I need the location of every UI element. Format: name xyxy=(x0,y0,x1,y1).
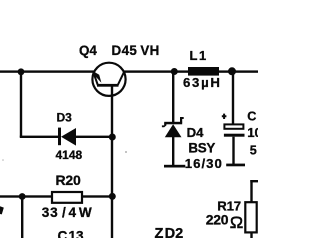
wire R17 top lead vertical xyxy=(250,180,252,202)
svg-text:10: 10 xyxy=(247,125,258,140)
scan speck left margin xyxy=(2,159,4,161)
wire top rail left segment xyxy=(0,70,95,72)
wire top rail right segment (collector to right edge through L1) xyxy=(124,70,258,72)
capacitor C bottom plate xyxy=(224,134,245,137)
plus sign of capacitor C xyxy=(222,114,227,119)
wire R20 row left segment xyxy=(0,195,52,197)
wire R20 row right segment xyxy=(82,195,113,197)
wire D3 row left segment xyxy=(20,136,59,138)
inductor L1 solid bar xyxy=(188,67,219,76)
clipped character at left edge xyxy=(0,206,4,214)
svg-text:R20: R20 xyxy=(56,172,81,188)
svg-text:Q4: Q4 xyxy=(79,43,97,58)
resistor R20 box xyxy=(52,192,82,203)
wire R17 bottom lead xyxy=(250,232,252,238)
wire D4 branch vertical (node L1 left down to zener) xyxy=(172,72,174,123)
svg-text:33 / 4 W: 33 / 4 W xyxy=(42,205,93,220)
node C junction dot left xyxy=(19,193,26,200)
capacitor C top plate (open box) xyxy=(224,124,243,128)
transistor Q4 collector slant xyxy=(118,72,124,85)
transistor Q4 emitter arrow xyxy=(93,71,101,83)
label ohm symbol of 220 ohm xyxy=(230,217,243,227)
ground bar under capacitor xyxy=(226,164,245,167)
svg-text:Z D2: Z D2 xyxy=(155,226,184,238)
node A junction dot xyxy=(18,68,25,75)
svg-text:5: 5 xyxy=(250,143,257,157)
resistor R17 vertical box xyxy=(245,202,256,232)
scan speck near base line xyxy=(125,151,127,153)
node dot L1 left xyxy=(171,68,178,75)
transistor Q4 emitter slant xyxy=(93,71,98,85)
wire D4 anode lead down xyxy=(172,137,174,165)
svg-text:D45 VH: D45 VH xyxy=(112,43,160,58)
zener D4 right hook (up then right) xyxy=(180,117,184,123)
zener D4 cathode bar xyxy=(164,122,182,125)
ground bar under D4 xyxy=(164,165,185,168)
svg-text:63µH: 63µH xyxy=(183,75,222,90)
wire capacitor lead down xyxy=(232,137,234,164)
wire left vertical from node A down to D3 row xyxy=(20,72,22,137)
svg-text:BSY: BSY xyxy=(188,141,215,156)
svg-text:C: C xyxy=(247,109,256,123)
wire R17 top corner from right edge xyxy=(250,180,258,182)
wire C branch vertical (node L1 right down to capacitor) xyxy=(232,71,234,124)
wire left vertical to bottom edge xyxy=(21,197,23,239)
svg-text:D4: D4 xyxy=(187,125,205,140)
svg-text:L1: L1 xyxy=(190,48,208,63)
svg-text:220: 220 xyxy=(206,212,229,228)
node B junction dot xyxy=(109,134,116,141)
zener D4 triangle (pointing up) xyxy=(165,124,182,137)
zener D4 left hook (down then left) xyxy=(162,124,167,128)
transistor Q4 base lead vertical long run down to bottom edge xyxy=(111,86,113,238)
svg-text:C 13: C 13 xyxy=(58,229,85,238)
svg-text:4148: 4148 xyxy=(56,148,83,162)
transistor Q4 base bar xyxy=(97,84,119,87)
node dot L1 right xyxy=(228,67,236,75)
diode D3 cathode bar xyxy=(58,128,61,146)
transistor Q4 circle xyxy=(92,63,125,96)
svg-text:16/30: 16/30 xyxy=(185,156,223,171)
diode D3 triangle xyxy=(61,128,76,146)
wire D3 row right segment xyxy=(76,136,112,138)
node D junction dot right xyxy=(109,193,116,200)
svg-text:D3: D3 xyxy=(57,111,73,125)
